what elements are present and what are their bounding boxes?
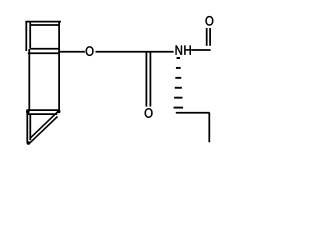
junction dot - triangle bottom: [27, 141, 31, 145]
ring edge - triangle outer left vertical: [26, 109, 28, 143]
ring edge - rectangle left vertical: [28, 49, 30, 111]
ring edge - triangle inner top: [27, 113, 57, 115]
hashed wedge dash 2: [176, 67, 181, 69]
double bond C=O formyl line 1: [206, 28, 208, 46]
atom label O formyl: [206, 16, 214, 25]
double bond C=O carbamate line 2: [149, 52, 151, 107]
double bond C=O carbamate line 1: [145, 52, 147, 107]
hashed wedge dash 6: [174, 107, 184, 109]
ring edge - square bottom lower line: [28, 52, 59, 54]
atom label H of NH: [184, 46, 190, 55]
junction dot - triangle top-right: [57, 110, 61, 114]
hashed wedge dash 4: [175, 87, 182, 89]
atom label O ester: [86, 46, 94, 55]
ring edge - square outer top: [25, 21, 61, 23]
ring edge - square inner left vertical: [29, 22, 31, 49]
double bond C=O formyl line 2: [209, 28, 211, 46]
bond CH-CH2 horizontal: [176, 112, 210, 114]
ring edge - square inner top: [30, 24, 59, 26]
ring edge - right vertical full height: [58, 21, 60, 112]
atom label N of NH: [176, 46, 182, 55]
ring edge - triangle outer top: [27, 109, 60, 111]
hashed wedge dash 1: [177, 57, 181, 59]
bond O-C(=O)-N chain: [96, 51, 174, 53]
ring edge - triangle inner hypotenuse: [28, 117, 57, 145]
hashed wedge dash 3: [175, 77, 181, 79]
bond NH-CHO: [191, 49, 210, 51]
bond C-O ester left: [59, 51, 85, 53]
atom label O carbamate: [145, 108, 153, 117]
junction dot - triangle top-left: [26, 110, 30, 114]
ring edge - triangle inner left vertical: [29, 114, 31, 141]
ring edge - square outer left vertical: [25, 21, 27, 51]
ring edge - square bottom upper line: [30, 48, 59, 50]
hashed wedge dash 5: [174, 97, 182, 99]
ring edge - triangle outer hypotenuse: [30, 110, 59, 138]
bond CH2-CH3 vertical: [208, 113, 210, 143]
